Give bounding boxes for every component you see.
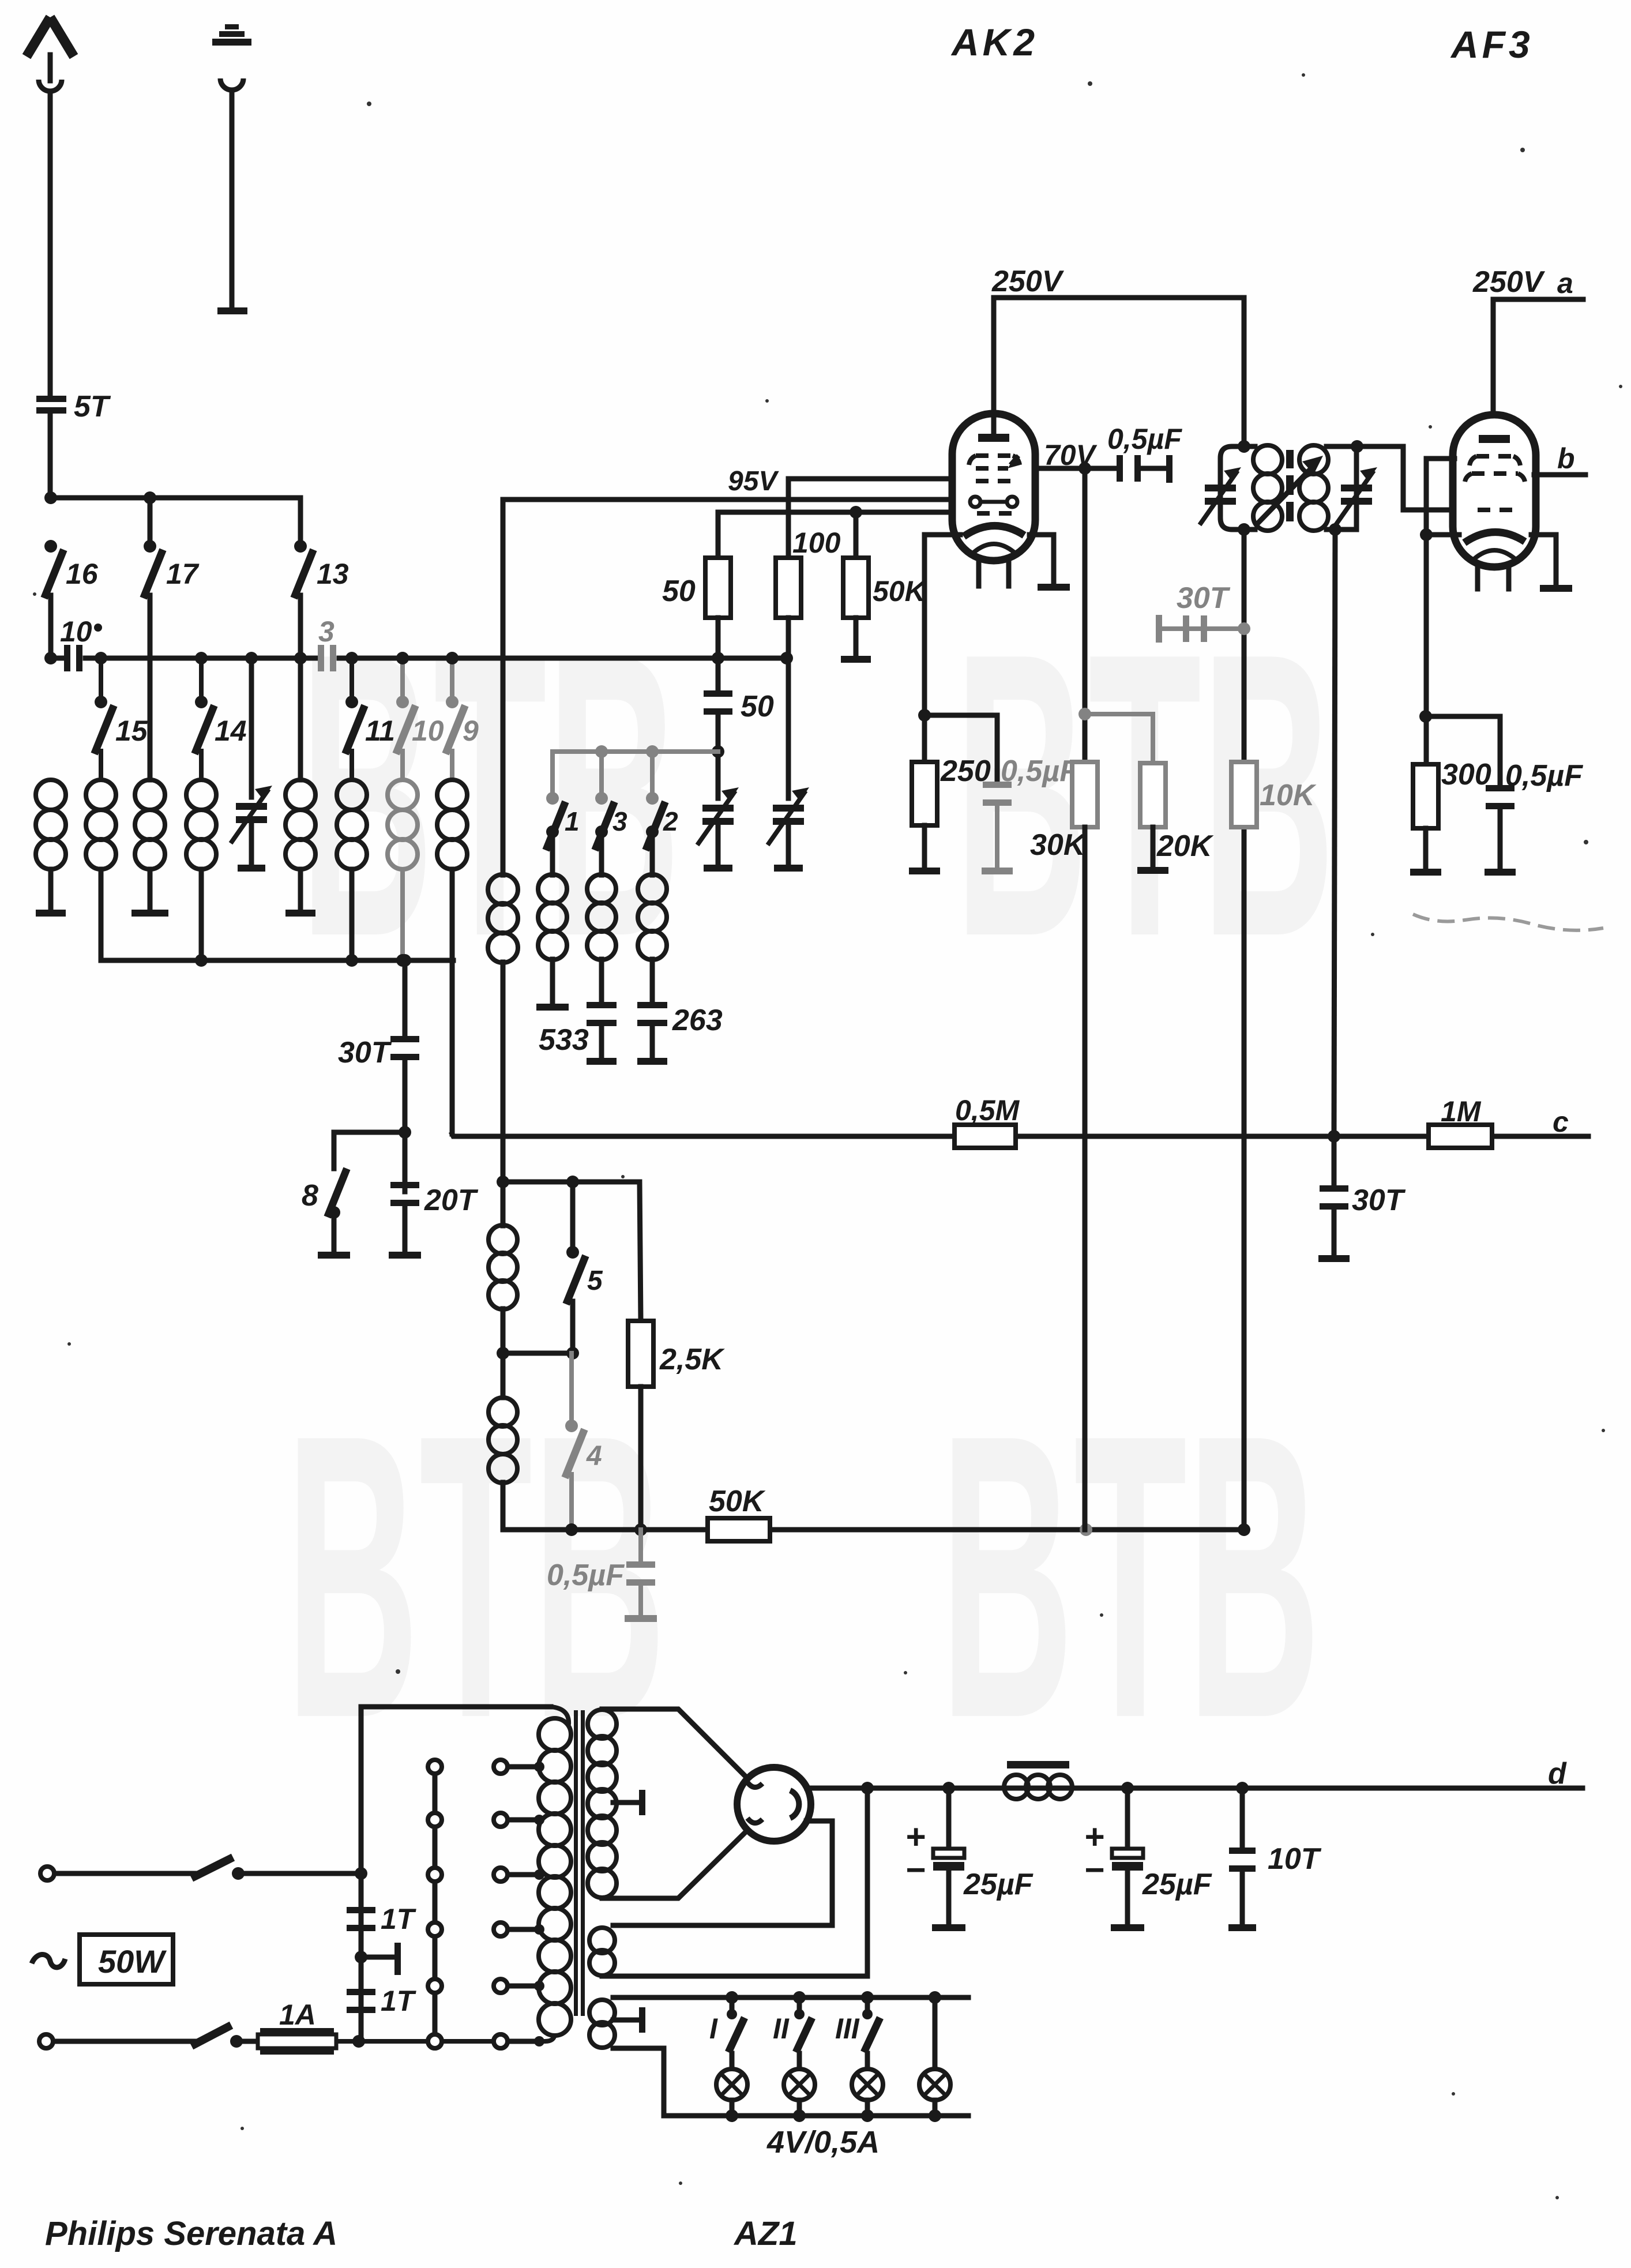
svg-text:d: d bbox=[1548, 1757, 1567, 1790]
svg-text:95V: 95V bbox=[728, 466, 779, 497]
svg-text:8: 8 bbox=[302, 1179, 318, 1212]
svg-text:10: 10 bbox=[60, 615, 92, 648]
svg-text:0,5µF: 0,5µF bbox=[547, 1559, 625, 1592]
svg-text:100: 100 bbox=[792, 527, 841, 559]
svg-text:BTB: BTB bbox=[940, 1351, 1321, 1802]
svg-text:25µF: 25µF bbox=[1142, 1868, 1212, 1901]
svg-text:Philips Serenata A: Philips Serenata A bbox=[45, 2215, 337, 2252]
svg-text:16: 16 bbox=[66, 558, 99, 590]
svg-text:4: 4 bbox=[586, 1441, 602, 1471]
svg-text:11: 11 bbox=[365, 715, 395, 747]
svg-text:50: 50 bbox=[741, 690, 774, 723]
svg-text:30T: 30T bbox=[338, 1036, 392, 1069]
svg-text:250V: 250V bbox=[991, 265, 1065, 298]
svg-text:533: 533 bbox=[539, 1023, 589, 1057]
svg-text:10: 10 bbox=[412, 715, 444, 747]
svg-text:1T: 1T bbox=[381, 1985, 417, 2017]
svg-text:I: I bbox=[709, 2012, 718, 2045]
svg-text:5: 5 bbox=[587, 1266, 603, 1296]
svg-text:III: III bbox=[835, 2012, 860, 2045]
svg-text:AF3: AF3 bbox=[1450, 23, 1534, 66]
svg-text:2,5K: 2,5K bbox=[659, 1343, 725, 1376]
svg-text:5T: 5T bbox=[74, 390, 111, 423]
svg-text:0,5µF: 0,5µF bbox=[1001, 754, 1078, 788]
svg-text:0,5µF: 0,5µF bbox=[1107, 423, 1182, 455]
svg-text:AZ1: AZ1 bbox=[733, 2215, 798, 2252]
svg-text:14: 14 bbox=[215, 715, 247, 747]
svg-text:II: II bbox=[773, 2012, 790, 2045]
svg-text:1: 1 bbox=[565, 806, 580, 836]
svg-text:25µF: 25µF bbox=[963, 1868, 1034, 1901]
svg-text:−: − bbox=[905, 1850, 925, 1889]
svg-text:1M: 1M bbox=[1441, 1095, 1482, 1128]
svg-text:−: − bbox=[1084, 1850, 1104, 1889]
svg-text:10T: 10T bbox=[1268, 1842, 1322, 1876]
svg-text:AK2: AK2 bbox=[950, 21, 1038, 63]
svg-text:13: 13 bbox=[317, 558, 349, 590]
svg-text:17: 17 bbox=[166, 558, 200, 590]
svg-text:1A: 1A bbox=[279, 1999, 316, 2031]
svg-text:70V: 70V bbox=[1044, 439, 1098, 471]
svg-text:3: 3 bbox=[612, 806, 627, 836]
svg-text:10K: 10K bbox=[1260, 779, 1317, 812]
svg-text:15: 15 bbox=[115, 715, 148, 747]
svg-text:20T: 20T bbox=[424, 1184, 479, 1217]
svg-text:250V: 250V bbox=[1472, 265, 1546, 299]
svg-text:300: 300 bbox=[1441, 758, 1491, 791]
svg-text:4V/0,5A: 4V/0,5A bbox=[766, 2125, 880, 2160]
svg-text:50: 50 bbox=[662, 574, 696, 608]
svg-text:3: 3 bbox=[318, 615, 335, 648]
svg-text:0,5µF: 0,5µF bbox=[1505, 759, 1583, 793]
svg-text:9: 9 bbox=[463, 715, 479, 747]
svg-text:c: c bbox=[1553, 1106, 1569, 1138]
svg-text:20K: 20K bbox=[1156, 829, 1214, 863]
svg-text:50K: 50K bbox=[873, 575, 928, 607]
svg-text:50K: 50K bbox=[709, 1485, 766, 1518]
svg-text:a: a bbox=[1557, 267, 1573, 299]
svg-text:263: 263 bbox=[672, 1004, 723, 1037]
svg-text:1T: 1T bbox=[381, 1903, 417, 1935]
svg-text:30T: 30T bbox=[1352, 1184, 1406, 1217]
svg-text:50W: 50W bbox=[98, 1943, 167, 1980]
svg-text:0,5M: 0,5M bbox=[955, 1094, 1020, 1127]
svg-text:b: b bbox=[1557, 442, 1575, 475]
svg-text:2: 2 bbox=[663, 806, 678, 836]
svg-text:30K: 30K bbox=[1030, 828, 1087, 862]
svg-text:30T: 30T bbox=[1177, 581, 1231, 615]
